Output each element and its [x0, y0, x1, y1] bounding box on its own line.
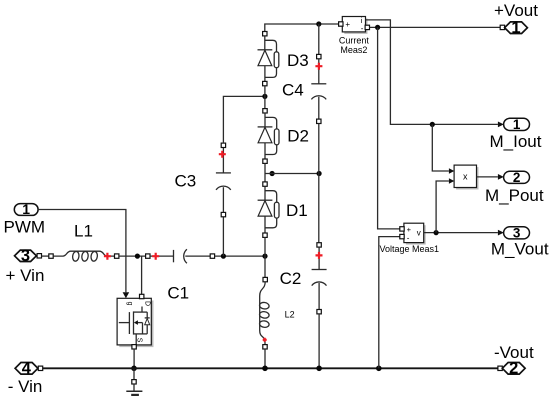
wire link to right column — [265, 173, 319, 175]
label C4 — [282, 80, 304, 99]
svg-text:-: - — [407, 233, 410, 242]
node VM minus bottom — [376, 366, 382, 372]
svg-text:C4: C4 — [282, 80, 304, 99]
label +Vout — [494, 1, 538, 20]
diode D3 — [258, 32, 279, 86]
outport M_Vout — [504, 225, 530, 240]
C2 red plus — [316, 252, 323, 259]
svg-text:Meas2: Meas2 — [340, 45, 367, 55]
outport M_Pout — [504, 170, 530, 185]
svg-text:1: 1 — [22, 201, 30, 217]
label M_Iout — [490, 132, 542, 151]
svg-text:-: - — [361, 24, 364, 33]
svg-text:2: 2 — [509, 360, 518, 378]
svg-text:+ Vin: + Vin — [6, 266, 45, 285]
port +Vout — [500, 19, 527, 37]
C1 red plus — [152, 253, 159, 260]
label + Vin — [6, 266, 45, 285]
wire L2 to rail — [264, 349, 266, 368]
svg-text:-Vout: -Vout — [494, 343, 534, 362]
svg-text:4: 4 — [22, 360, 32, 378]
wire D1 to node — [264, 237, 266, 277]
wire C3 top to main column — [223, 96, 265, 143]
label D1 — [286, 201, 308, 220]
L2 red plus — [263, 338, 267, 342]
node right column junction — [317, 171, 322, 176]
svg-text:g: g — [126, 302, 133, 306]
wire +Vout node to Voltage Meas1 plus — [378, 27, 400, 229]
port -Vout — [498, 360, 525, 378]
wire C1 to node — [215, 255, 265, 257]
inductor L1 — [49, 251, 119, 262]
wire branch to product input 1 — [432, 124, 454, 173]
capacitor C4 — [311, 54, 326, 123]
wire C4 branch down — [318, 24, 320, 54]
wire branch to product input 2 — [436, 178, 454, 232]
label C1 — [167, 283, 189, 302]
label -Vout — [494, 343, 534, 362]
node C4 top junction — [316, 21, 321, 26]
svg-text:C1: C1 — [167, 283, 189, 302]
node source junction — [131, 366, 137, 372]
voltage measurement U2 Voltage Meas1 — [400, 223, 426, 244]
svg-text:- Vin: - Vin — [8, 377, 43, 396]
svg-text:Current: Current — [339, 35, 370, 45]
svg-text:D1: D1 — [286, 201, 308, 220]
capacitor C2 — [312, 243, 327, 314]
inductor L2 — [259, 277, 269, 349]
diode D1 — [258, 182, 279, 238]
svg-text:M_Vout: M_Vout — [491, 239, 549, 258]
svg-text:3: 3 — [513, 225, 521, 240]
node C3 branch — [221, 254, 226, 259]
wire D3 to D2 — [264, 86, 266, 109]
C4 red plus — [315, 63, 322, 70]
ground — [126, 368, 142, 395]
label L2 — [285, 309, 295, 319]
svg-text:L2: L2 — [285, 309, 295, 319]
wire bottom rail — [43, 367, 498, 369]
MOSFET Q1 block — [117, 294, 153, 349]
node drain junction — [135, 254, 140, 259]
C3 red plus — [219, 151, 226, 158]
capacitor C1 — [146, 249, 215, 263]
L1 red plus — [104, 253, 111, 260]
label Current Meas2 — [339, 35, 370, 55]
wire L1 to C1 — [119, 255, 146, 257]
svg-text:C2: C2 — [280, 269, 302, 288]
wire C3 branch up — [222, 217, 224, 256]
wire Voltage Meas1 minus to rail — [379, 237, 400, 369]
label M_Pout — [485, 186, 544, 205]
label D2 — [287, 126, 309, 145]
label Voltage Meas1 — [380, 244, 440, 254]
node C2 bottom — [316, 366, 322, 372]
wire source to rail — [133, 349, 135, 368]
wire drain branch — [141, 256, 143, 294]
wire C2 to rail — [318, 314, 320, 368]
svg-text:Voltage Meas1: Voltage Meas1 — [380, 244, 440, 254]
label M_Vout — [491, 239, 549, 258]
svg-text:M_Iout: M_Iout — [490, 132, 542, 151]
label C3 — [175, 172, 197, 191]
outport M_Iout — [504, 117, 530, 132]
port 4 -Vin — [15, 360, 43, 378]
svg-text:PWM: PWM — [4, 217, 46, 236]
node +Vout branch — [375, 25, 380, 30]
wire D2 to D1 — [264, 163, 266, 182]
wire top rail from D3 to Current Meas2 — [265, 24, 339, 32]
svg-text:1: 1 — [513, 117, 521, 132]
svg-text:L1: L1 — [74, 221, 93, 240]
svg-text:M_Pout: M_Pout — [485, 186, 544, 205]
inport 1 PWM — [14, 201, 38, 217]
svg-text:D: D — [143, 301, 150, 306]
port 3 +Vin — [15, 247, 42, 265]
label C2 — [280, 269, 302, 288]
svg-text:1: 1 — [511, 19, 520, 37]
product block U3 — [454, 165, 478, 189]
wire Voltage Meas1 out to M_Vout — [424, 230, 504, 236]
node M_Vout branch — [434, 230, 439, 235]
diode D2 — [258, 109, 279, 164]
wire PWM to MOSFET gate — [38, 210, 129, 299]
wire i signal to M_Iout — [366, 20, 504, 127]
wire C4 to C2 — [318, 124, 320, 243]
svg-text:+: + — [345, 20, 350, 29]
node C3 top junction — [262, 94, 267, 99]
node M_Iout branch — [430, 122, 435, 127]
label - Vin — [8, 377, 43, 396]
svg-text:D3: D3 — [287, 51, 309, 70]
svg-text:+Vout: +Vout — [494, 1, 538, 20]
label L1 — [74, 221, 93, 240]
node D2-D1 branch — [270, 171, 275, 176]
current measurement U1 Current Meas2 — [339, 16, 370, 34]
svg-text:x: x — [463, 172, 468, 182]
svg-text:D2: D2 — [287, 126, 309, 145]
wire +Vin to L1 — [42, 255, 49, 257]
svg-text:C3: C3 — [175, 172, 197, 191]
label PWM — [4, 217, 46, 236]
svg-text:3: 3 — [21, 247, 30, 265]
node main column — [262, 254, 267, 259]
wire product out to M_Pout — [477, 174, 504, 180]
node L2 bottom — [262, 366, 268, 372]
wire Current Meas2 out to +Vout — [370, 26, 501, 28]
svg-text:2: 2 — [513, 170, 521, 185]
capacitor C3 — [216, 143, 231, 217]
svg-text:v: v — [417, 229, 421, 238]
label D3 — [287, 51, 309, 70]
